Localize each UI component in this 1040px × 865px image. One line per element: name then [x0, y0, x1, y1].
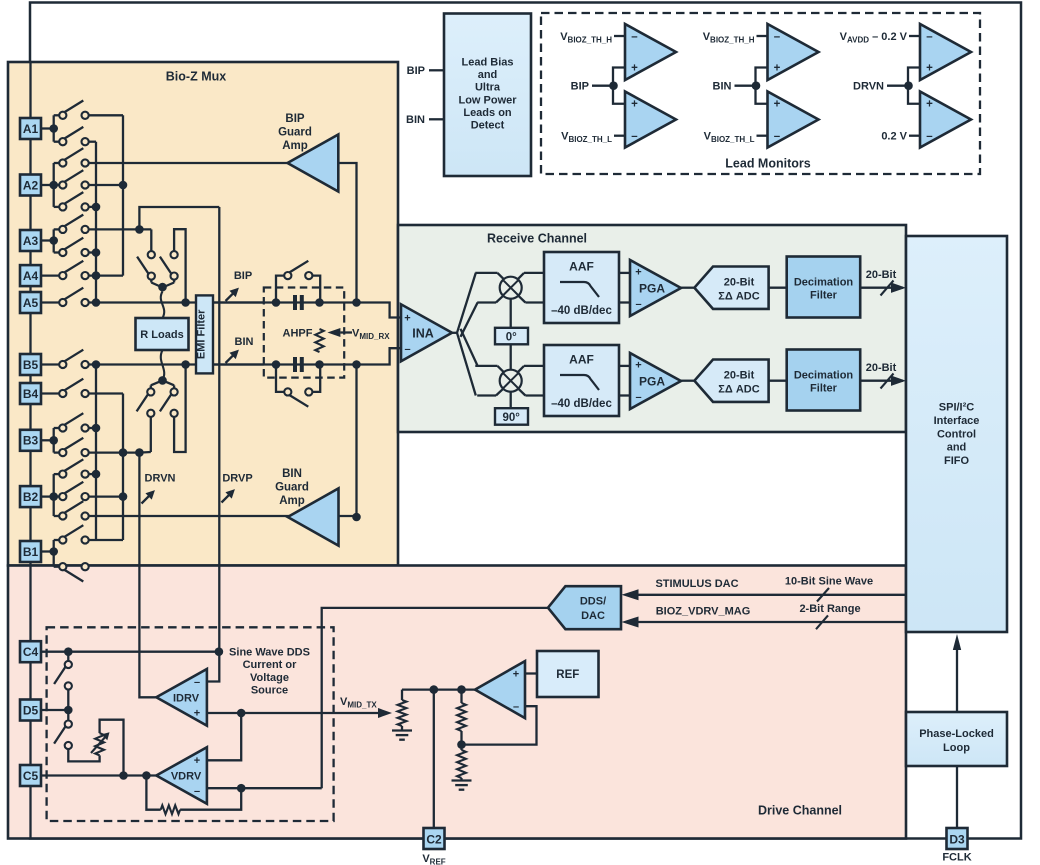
wire BIP guard output [89, 162, 288, 164]
Sine Wave DDS source dashed box [47, 627, 334, 821]
wire A1 row1 to bus [89, 114, 123, 116]
Lead Monitors dashed box [541, 13, 980, 174]
wire top threshold (DRVN column) [909, 35, 920, 37]
node B3 [41, 439, 54, 441]
bus slash (I row) [881, 281, 894, 296]
pin C2 [424, 828, 445, 849]
svg-text:C5: C5 [23, 769, 39, 783]
svg-text:A3: A3 [23, 234, 39, 248]
svg-text:BIN: BIN [282, 468, 302, 480]
op-amp INA [401, 304, 452, 361]
filter AAF box (I row) [544, 252, 619, 323]
svg-text:Guard: Guard [275, 482, 309, 494]
ADC 20-bit sigma-delta (I row) [694, 267, 768, 309]
svg-text:FIFO: FIFO [944, 455, 969, 467]
node A5 bus96 [92, 298, 101, 307]
node C5 feedback junction [142, 771, 151, 780]
svg-text:EMI Filter: EMI Filter [196, 309, 208, 359]
Receive Channel block background [398, 225, 906, 432]
svg-text:Bio-Z Mux: Bio-Z Mux [166, 70, 226, 84]
SPI interface block [906, 236, 1007, 632]
filter AAF box (Q row) [544, 345, 619, 416]
wire BIP to lead bias [429, 69, 444, 71]
wire BIN guard output [89, 515, 289, 517]
pin A4 [20, 265, 41, 286]
switch B2 row2 [54, 495, 60, 497]
node C4 branch [64, 647, 73, 656]
wire BIP jog to INA [357, 303, 402, 318]
wire bottom threshold (DRVN column) [909, 135, 920, 137]
svg-text:–: – [631, 31, 638, 43]
svg-text:BIN: BIN [235, 336, 254, 348]
op-amp PGA (I row) [630, 260, 681, 316]
wire VDRV feedback right [180, 788, 241, 810]
Phase-Locked Loop block [906, 712, 1007, 766]
svg-text:B4: B4 [23, 387, 39, 401]
wire REF minus feedback [462, 706, 537, 744]
svg-text:VDRV: VDRV [171, 771, 202, 783]
wire BIP guard input [338, 163, 356, 303]
svg-text:+: + [635, 360, 641, 372]
node BIN cap left [272, 360, 281, 369]
node A2 bus123 [119, 181, 128, 190]
wire AAF to PGA upper (Q row) [619, 365, 630, 367]
wire decimation output (I row) [860, 287, 903, 289]
divider resistor 1 [457, 703, 466, 731]
svg-text:–: – [404, 344, 410, 356]
node A3 row1 junction [135, 225, 144, 234]
node B2 bus123 [119, 492, 128, 501]
cluster A hairpin [174, 229, 186, 302]
wire B2 row2 to bus [89, 495, 123, 497]
svg-text:Lead Bias: Lead Bias [462, 57, 514, 69]
svg-text:+: + [404, 313, 410, 325]
switch B2 row1 [53, 474, 55, 497]
Decimation Filter box (I row) [787, 257, 861, 318]
svg-text:A2: A2 [23, 178, 39, 192]
wire AAF to PGA lower (I row) [619, 301, 630, 303]
svg-text:Amp: Amp [282, 140, 308, 152]
node VDRV minus feedback [237, 784, 246, 793]
svg-text:–: – [926, 31, 933, 43]
svg-text:–: – [635, 299, 641, 311]
svg-text:BIN: BIN [713, 81, 732, 93]
switch B4 row [41, 392, 59, 394]
svg-text:B5: B5 [23, 358, 39, 372]
svg-text:DRVN: DRVN [145, 473, 176, 485]
svg-text:+: + [631, 63, 638, 75]
wire B5 to EMI (BIN line) [89, 363, 264, 365]
svg-text:Decimation: Decimation [794, 277, 854, 289]
wire D5 to rheostat [68, 749, 99, 761]
ground symbol mid [392, 729, 412, 731]
bypass switch BIP [276, 276, 284, 303]
svg-text:AHPF: AHPF [283, 328, 313, 340]
node A4 bus96 [92, 271, 101, 280]
switch C4-D5 [67, 652, 69, 661]
node IDRV VDRV plus junction [237, 709, 246, 718]
DRVP annotation arrow [222, 494, 230, 502]
node BIN guard corner [352, 513, 361, 522]
node B2 bus96 [92, 470, 101, 479]
switch A1 row1 [53, 115, 55, 128]
svg-text:SPI/I²C: SPI/I²C [939, 402, 975, 414]
pin C4 [20, 641, 41, 662]
wire mixer upper diff in (I row) [475, 272, 497, 274]
bypass switch BIN [276, 365, 284, 392]
output arrowhead (I row) [891, 283, 906, 293]
wire BIN guard input [339, 365, 357, 517]
svg-text:REF: REF [556, 669, 579, 681]
svg-text:A1: A1 [23, 122, 39, 136]
rheostat [95, 733, 104, 755]
svg-text:Lead Monitors: Lead Monitors [725, 157, 810, 171]
wire rheostat to C5 line [100, 720, 124, 776]
AHPF resistor [315, 329, 323, 352]
wire DRVP bus [207, 207, 219, 682]
Drive Channel block background [8, 566, 906, 839]
switch B1 row2 boundary [53, 552, 55, 567]
svg-text:PGA: PGA [639, 375, 665, 389]
input bracket (BIN column) [756, 68, 768, 104]
switch A2 row guard [53, 163, 55, 185]
svg-text:B1: B1 [23, 545, 39, 559]
node A2 [41, 184, 54, 186]
comparator bottom triangle (BIP column) [625, 92, 676, 148]
Bio-Z Mux block background [8, 62, 398, 566]
svg-text:VREF: VREF [422, 853, 445, 865]
pin A1 [20, 118, 41, 139]
wire VDRV to DDS [322, 608, 548, 788]
Decimation Filter box (Q row) [787, 350, 861, 411]
svg-text:+: + [513, 669, 519, 681]
node A1 [41, 127, 54, 129]
cluster B hairpin [174, 365, 186, 453]
node BIP cap left [272, 298, 281, 307]
cluster A switch left [150, 229, 152, 251]
bus slash (Q row) [881, 374, 894, 389]
wire bioz vdrv mag [638, 621, 906, 623]
switch B3 row2 [53, 440, 55, 452]
pin A5 [20, 292, 41, 313]
capacitor BIN [294, 358, 297, 372]
wire mixer1 to 0deg box [510, 299, 512, 328]
switch B2 row guard [53, 497, 55, 516]
wire PLL to SPI [956, 650, 958, 712]
svg-text:+: + [926, 63, 933, 75]
svg-text:and: and [478, 69, 498, 81]
svg-text:Phase-Locked: Phase-Locked [919, 728, 994, 740]
svg-text:–: – [194, 786, 200, 798]
comparator top triangle (DRVN column) [920, 24, 971, 80]
cluster B switch left [151, 380, 163, 385]
wire mid input (DRVN column) [887, 85, 908, 87]
BIN annotation arrow [226, 355, 234, 363]
wire mixer upper diff out (Q row) [517, 366, 524, 373]
cluster B switch right [163, 380, 175, 385]
AAF response curve (Q row) [560, 375, 599, 390]
svg-text:Loop: Loop [943, 742, 970, 754]
BIP annotation arrow [226, 293, 234, 301]
pin B4 [20, 383, 41, 404]
pin B3 [20, 430, 41, 451]
svg-text:20-Bit: 20-Bit [866, 269, 897, 281]
svg-text:DRVN: DRVN [853, 81, 884, 93]
divider resistor 2 [457, 750, 466, 778]
wire mixer upper diff out (I row) [517, 273, 524, 280]
switch B5 row [41, 363, 59, 365]
rail A cluster top [139, 207, 219, 229]
wire top node [401, 690, 403, 700]
svg-text:+: + [926, 99, 933, 111]
wire A5 to EMI (BIP line) [89, 301, 264, 303]
wire PGA to ADC (Q row) [681, 380, 694, 382]
bus mux96 B [95, 365, 97, 541]
chip left edge pin bus [29, 62, 31, 838]
output arrowhead (Q row) [891, 376, 906, 386]
wire INA fan inner down [461, 329, 478, 366]
input bracket (BIP column) [613, 68, 625, 104]
wire mixer upper diff in (Q row) [475, 365, 497, 367]
bus mux123 A [122, 115, 124, 275]
wire A3 row2 to bus [89, 251, 96, 253]
op-amp PGA (Q row) [630, 353, 681, 409]
svg-text:R Loads: R Loads [140, 329, 183, 341]
bus mux96 A [95, 142, 97, 303]
wire divider gnd stub [460, 778, 462, 781]
svg-text:BIN: BIN [406, 114, 425, 126]
cluster A switch right [171, 251, 178, 258]
svg-text:AAF: AAF [569, 353, 594, 367]
svg-text:Ultra: Ultra [475, 82, 501, 94]
wire REF plus [525, 672, 537, 674]
svg-text:Source: Source [251, 685, 288, 697]
svg-text:Low Power: Low Power [458, 94, 517, 106]
svg-text:BIP: BIP [234, 270, 252, 282]
op-amp IDRV [156, 669, 207, 726]
svg-text:DRVP: DRVP [222, 473, 252, 485]
bus slash range [816, 615, 828, 629]
comparator bottom triangle (BIN column) [768, 92, 819, 148]
ADC 20-bit sigma-delta (Q row) [694, 360, 768, 402]
wire VDRV plus input [207, 713, 241, 760]
input bracket (DRVN column) [908, 68, 920, 104]
V_MID_RX arrowhead [327, 328, 340, 337]
wire top threshold (BIP column) [614, 35, 625, 37]
svg-text:PGA: PGA [639, 282, 665, 296]
node mid input (BIN column) [752, 81, 761, 90]
bus slash sine wave [817, 588, 829, 602]
wire BIN through AHPF [213, 363, 357, 365]
wire stimulus dac [638, 594, 906, 596]
node BIN cap right [315, 360, 324, 369]
svg-text:DDS/: DDS/ [580, 596, 606, 608]
wire VDRV feedback down [146, 776, 160, 810]
svg-text:+: + [631, 99, 638, 111]
wire BIN jog to INA [357, 348, 402, 364]
wire B3 row1 to bus [89, 427, 96, 429]
wire C2 drop [433, 690, 435, 828]
svg-text:B2: B2 [23, 490, 39, 504]
op-amp REF buffer [475, 661, 525, 718]
svg-text:90°: 90° [503, 412, 521, 424]
capacitor BIP [294, 296, 297, 310]
svg-text:C2: C2 [426, 833, 442, 847]
comparator bottom triangle (DRVN column) [920, 92, 971, 148]
R Loads box [136, 318, 189, 350]
wire ADC to decimation filter (Q row) [769, 380, 787, 382]
comparator top triangle (BIP column) [625, 24, 676, 80]
svg-text:20-Bit: 20-Bit [724, 276, 755, 288]
node BIN guard tap [352, 360, 361, 369]
op-amp BIN Guard [288, 488, 339, 545]
svg-text:–: – [635, 392, 641, 404]
node BIP guard tap [352, 298, 361, 307]
wire VDRV minus input [207, 787, 322, 789]
svg-text:–40 dB/dec: –40 dB/dec [551, 398, 612, 410]
pin A2 [20, 175, 41, 196]
wire resistor to gnd [401, 726, 403, 730]
wire PGA to ADC (I row) [681, 287, 694, 289]
wire AAF to PGA lower (Q row) [619, 394, 630, 396]
wire A3 row1 to cluster [89, 228, 152, 230]
node B3 bus96 [92, 424, 101, 433]
node BIN Rloads junction [181, 360, 190, 369]
op-amp BIP Guard [288, 135, 339, 192]
wire mixer lower diff in (I row) [477, 301, 496, 303]
PLL to SPI arrowhead [953, 634, 961, 650]
svg-text:–40 dB/dec: –40 dB/dec [551, 305, 612, 317]
pin B2 [20, 486, 41, 507]
svg-text:2-Bit Range: 2-Bit Range [799, 603, 860, 615]
stimulus arrowhead [622, 589, 639, 600]
squiggle cluster to R Loads top [161, 291, 164, 318]
svg-text:DAC: DAC [581, 610, 605, 622]
wire DRVN bus [139, 453, 156, 698]
mixer (Q row) [500, 370, 522, 392]
svg-text:ΣΔ ADC: ΣΔ ADC [718, 290, 759, 302]
svg-text:0°: 0° [506, 332, 517, 344]
node B3 row2 bus123 [119, 448, 128, 457]
svg-text:ΣΔ ADC: ΣΔ ADC [718, 383, 759, 395]
switch A1 row2 [53, 129, 55, 142]
squiggle R Loads bottom to cluster [161, 350, 164, 380]
svg-text:C4: C4 [23, 645, 39, 659]
wire B2 row1 to bus [89, 473, 96, 475]
svg-text:20-Bit: 20-Bit [866, 362, 897, 374]
node D5 branch [64, 706, 73, 715]
switch A4 row [41, 274, 59, 276]
pin A3 [20, 230, 41, 251]
svg-text:D3: D3 [949, 833, 965, 847]
svg-text:BIP: BIP [407, 65, 425, 77]
AAF response curve (I row) [560, 282, 599, 297]
node divider junction [457, 685, 466, 694]
svg-text:INA: INA [412, 327, 434, 341]
svg-text:Filter: Filter [810, 383, 838, 395]
node divider tap [457, 740, 466, 749]
svg-text:–: – [926, 131, 933, 143]
svg-text:BIOZ_VDRV_MAG: BIOZ_VDRV_MAG [656, 606, 751, 618]
wire mixer lower diff out (Q row) [518, 388, 526, 395]
svg-text:Sine Wave DDS: Sine Wave DDS [229, 647, 310, 659]
wire A2 row2 to bus [89, 184, 123, 186]
node A3 bus96 [92, 248, 101, 257]
V_MID_TX arrowhead [378, 708, 392, 718]
op-amp VDRV [156, 747, 207, 804]
node BIP cap right [315, 298, 324, 307]
switch D5 lower [67, 710, 69, 721]
wire mixer2 to 90deg box [510, 392, 512, 409]
wire INA output stub [452, 332, 458, 334]
svg-text:Decimation: Decimation [794, 370, 854, 382]
svg-text:Current or: Current or [243, 659, 298, 671]
node BIP Rloads junction [181, 298, 190, 307]
pin D5 [20, 700, 41, 721]
wire A4 row to buses [89, 274, 123, 276]
wire PLL to D3 [956, 766, 958, 828]
svg-text:Guard: Guard [278, 127, 312, 139]
svg-text:Detect: Detect [471, 120, 505, 132]
DRVN annotation arrow [142, 495, 150, 503]
node cluster A join [158, 283, 167, 292]
switch B3 row1 [53, 428, 55, 440]
svg-text:BIP: BIP [285, 113, 305, 125]
svg-text:and: and [947, 442, 967, 454]
switch A2 row2 [54, 184, 60, 186]
svg-text:D5: D5 [23, 703, 39, 717]
wire mixer lower diff in (Q row) [477, 394, 496, 396]
0° phase box (I row) [495, 328, 528, 345]
svg-text:–: – [513, 701, 519, 713]
node A2 bus96 [92, 203, 101, 212]
wire divider top [460, 690, 462, 703]
mixer (I row) [500, 277, 522, 299]
REF block [537, 651, 599, 697]
wire B4 row to bus [89, 392, 123, 394]
svg-text:AAF: AAF [569, 260, 594, 274]
svg-text:+: + [194, 707, 200, 719]
wire decimation output (Q row) [860, 380, 903, 382]
wire INA fan outer down [457, 333, 476, 396]
svg-text:Leads on: Leads on [463, 107, 512, 119]
wire C4 row [41, 651, 219, 653]
svg-text:–: – [774, 131, 781, 143]
svg-text:Receive Channel: Receive Channel [487, 232, 587, 246]
wire A2 row3 to bus [89, 206, 96, 208]
svg-text:Interface: Interface [934, 415, 980, 427]
svg-text:Voltage: Voltage [250, 672, 289, 684]
vdrv mag arrowhead [622, 617, 639, 628]
90° phase box (Q row) [495, 408, 528, 425]
wire B3 row2 to DRVN [89, 451, 140, 453]
svg-text:STIMULUS DAC: STIMULUS DAC [655, 578, 738, 590]
pin C5 [20, 765, 41, 786]
svg-text:A5: A5 [23, 296, 39, 310]
wire C5 row [41, 774, 156, 776]
wire V_MID_RX [340, 331, 352, 333]
wire INA fan outer up [457, 273, 476, 333]
node A3 [41, 239, 54, 241]
node C5 rheostat junction [119, 771, 128, 780]
pin D3 [947, 828, 968, 849]
svg-text:A4: A4 [23, 269, 39, 283]
svg-text:–: – [774, 31, 781, 43]
wire ADC to decimation filter (I row) [769, 287, 787, 289]
switch A2 row3 [53, 185, 55, 207]
Lead Bias block [444, 14, 531, 177]
ground symbol divider [452, 779, 472, 781]
